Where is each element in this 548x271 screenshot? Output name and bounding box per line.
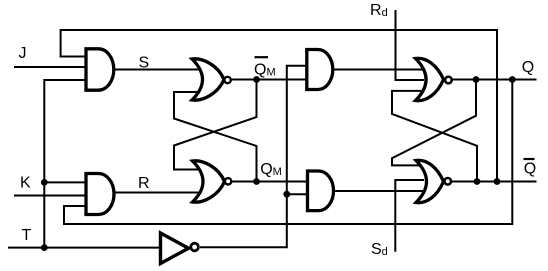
svg-text:K: K [20,175,31,192]
inverter on T clock line [161,233,189,264]
AND gate (K side, master reset) [86,173,114,214]
wire: Q output line [452,79,537,81]
NOR gate slave latch top (Q), 3-input [416,58,444,100]
wire: master latch cross-coupling NOR2 output to NOR1 lower input [174,92,257,182]
NOR gate slave latch bottom (Qbar), 3-input [416,160,444,202]
wire: QM line NOR2 output to AND4 upper input [232,181,308,183]
junction: Qbar line to top feedback rail [494,178,501,185]
wire: S line AND1 output to master NOR1 input [110,69,201,71]
junction: T line to riser [41,244,48,251]
wire: inverted clock branch to AND4 bottom input [287,193,308,195]
wire: master latch cross-coupling NOR1 output to NOR2 upper input [174,80,257,170]
NOR gate master latch bottom (QM) [193,161,225,202]
svg-text:S: S [139,55,150,72]
wire: J input stub [14,66,86,68]
wire: T branch to AND2 top input [44,181,86,183]
wire: Rd input vertical line into NOR3 middle input [396,10,425,80]
junction: T riser to AND2 top input [41,179,48,186]
svg-text:R: R [138,175,150,192]
wire: K input stub [14,195,86,197]
wire: Qbar feedback top rail from node on Qbar line up and across to AND1 top input [61,30,497,182]
bubble on inverter output [191,243,199,251]
wire: T clock riser with branch to AND1 bottom input [44,80,86,248]
svg-text:Q: Q [524,161,536,178]
wire: AND4 output to slave NOR4 bottom input [331,190,425,192]
junction: Q line to slave cross-coupling [473,76,480,83]
AND gate (slave reset, clocked by inverted clock) [308,171,334,211]
svg-text:T: T [22,227,32,244]
wire: slave latch cross-coupling Q node to NOR4 upper input [392,80,476,166]
wire: R line AND2 output to master NOR2 input [110,192,201,194]
wire: Q feedback from AND2 bottom input around bottom to Q output node [64,80,512,225]
junction: inverted clock tap to AND4 [283,191,290,198]
wire: inverted clock riser from inverter output to AND3 top input [200,66,307,248]
overbar of Qbar output label [524,158,535,160]
bubble on master NOR bottom output [225,178,231,184]
bubble on master NOR top output [224,77,230,83]
wire: AND3 output to slave NOR3 top input [330,69,425,71]
junction: QM node [253,178,260,185]
wire: QbarM line NOR1 output to AND3 lower input [232,79,307,81]
wire: T input line to inverter [8,247,161,249]
wire: slave latch cross-coupling Qbar node to NOR3 lower input [392,91,477,182]
overbar of QbarM label [255,56,269,58]
junction: Qbar line to slave cross-coupling [474,178,481,185]
AND gate (J side, master set) [86,49,114,90]
wire: Qbar output line [452,181,537,183]
junction: QbarM node [253,76,260,83]
bubble on slave NOR top output [445,77,452,84]
AND gate (slave set, clocked by inverted clock) [307,50,333,90]
bubble on slave NOR bottom output [444,178,451,185]
svg-text:Q: Q [522,59,534,76]
wire: Sd input vertical line into NOR4 middle input [395,180,424,252]
junction: Q line to bottom feedback wire [509,76,516,83]
svg-text:J: J [19,45,27,62]
NOR gate master latch top (QbarM) [192,59,224,100]
